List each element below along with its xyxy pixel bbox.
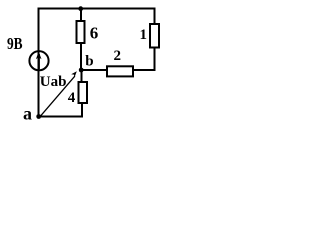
current source circle	[29, 51, 48, 70]
wire: R4 down to bottom wire	[81, 103, 83, 117]
svg-text:6: 6	[90, 24, 99, 43]
wire: right vertical upper stub to R1	[154, 8, 156, 25]
wire: middle top stub from top wire to R6	[80, 9, 82, 22]
wire: row left segment from R2 to node b	[81, 69, 108, 71]
current source arrowhead	[36, 52, 42, 60]
resistor 2	[107, 66, 133, 76]
resistor 4	[79, 82, 88, 103]
Uab arrow line from a to b	[41, 76, 75, 116]
Uab arrowhead	[71, 71, 77, 77]
wire: bottom horizontal from node a to below R4	[38, 116, 83, 118]
junction dot top (R6 branch)	[78, 6, 83, 11]
wire: top horizontal	[38, 8, 156, 10]
node b dot	[79, 68, 84, 73]
svg-text:1: 1	[140, 27, 148, 43]
wire: row right segment from corner to R2	[133, 69, 156, 71]
svg-text:9В: 9В	[7, 34, 23, 53]
svg-text:Uab: Uab	[40, 74, 67, 90]
current source arrow shaft	[38, 54, 40, 69]
wire: middle segment from R6 to node b	[80, 43, 82, 70]
svg-text:4: 4	[68, 90, 76, 106]
wire: node b down to R4	[81, 69, 83, 82]
resistor 6	[77, 21, 85, 43]
svg-text:a: a	[23, 104, 32, 124]
wire: left vertical from node a up through source to top-left corner	[38, 9, 40, 117]
resistor 1	[150, 24, 159, 48]
svg-text:b: b	[85, 54, 93, 70]
node a dot	[36, 114, 41, 119]
svg-text:2: 2	[114, 48, 122, 64]
wire: right vertical lower stub from R1 to row	[154, 48, 156, 72]
